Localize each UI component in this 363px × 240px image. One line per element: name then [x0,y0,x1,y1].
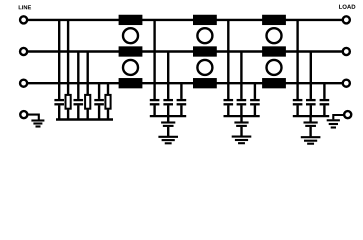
wire drop row1 to capacitor C12 [296,20,298,99]
wire drop row2 to capacitor C9 [240,52,242,99]
wire drop row2 to resistor R2 [86,52,88,95]
choke L1 winding row3 [119,78,143,88]
resistor R2 [85,95,90,120]
capacitor C2 [74,100,84,119]
wire drop row3 to capacitor C6 [180,83,182,99]
wire drop row1 to capacitor C1 [58,20,60,99]
capacitor C7 (star point to ground) [161,123,175,137]
label LINE [19,5,31,9]
choke L3 winding row2 [262,46,286,56]
wire drop row3 to capacitor C3 [98,83,100,99]
capacitor C8 [224,100,234,116]
choke L2 winding row1 [193,15,217,25]
resistor R3 [105,95,110,120]
ground symbol group C [301,137,321,144]
capacitor C15 (star point to ground) [304,123,318,138]
capacitor C5 [163,100,173,116]
ground symbol group A [158,137,178,144]
wire stem group B [240,116,242,121]
wire drop row3 to capacitor C14 [323,83,325,99]
capacitor C14 [320,100,330,116]
capacitor C13 [306,100,316,116]
wire drop row3 to capacitor C10 [254,83,256,99]
choke L3 winding row1 [262,15,286,25]
choke L2 core circle lower [197,60,212,75]
wire drop row1 to capacitor C8 [227,20,229,99]
choke L2 winding row2 [193,46,217,56]
choke L1 winding row1 [119,15,143,25]
ground symbol LINE side [31,121,44,127]
wire row 1 (phase A) [27,19,342,21]
capacitor C6 [177,100,187,116]
wire LINE ground stub [28,115,39,120]
terminal LINE phase A [20,16,27,23]
wire drop row2 to capacitor C13 [310,52,312,99]
wire stem group A [167,116,169,121]
terminal LINE ground [20,111,27,118]
terminal LOAD phase C [343,80,350,87]
wire drop row2 to capacitor C2 [77,52,79,99]
terminal LOAD ground [344,111,351,118]
capacitor C9 [237,100,247,116]
capacitor C1 [54,100,64,119]
ground symbol LOAD side [327,120,340,127]
terminal LINE phase C [20,80,27,87]
wire row 2 (phase B) [27,50,342,52]
wire star bus group A [150,115,186,117]
choke L2 winding row3 [193,78,217,88]
terminal LOAD phase B [343,48,350,55]
choke L3 core circle lower [267,60,282,75]
wire star bus group B [224,115,260,117]
terminal LINE phase B [20,48,27,55]
wire row 3 (phase C) [27,82,342,84]
choke L1 core circle upper [123,28,138,43]
terminal LOAD phase A [343,16,350,23]
wire drop row3 to resistor R3 [107,83,109,95]
choke L1 winding row2 [119,46,143,56]
choke L3 winding row3 [262,78,286,88]
choke L1 core circle lower [123,60,138,75]
capacitor C12 [293,100,303,116]
ground symbol group B [232,137,252,144]
capacitor C11 (star point to ground) [234,123,248,137]
capacitor C10 [250,100,260,116]
wire LOAD ground stub [333,115,344,119]
capacitor C3 [94,100,104,119]
wire stem group C [309,116,311,121]
wire drop row1 to resistor R1 [67,20,69,95]
capacitor C4 [150,100,160,116]
choke L2 core circle upper [197,28,212,43]
choke L3 core circle upper [267,28,282,43]
wire RC common bus [56,118,113,121]
label LOAD [339,5,355,9]
wire drop row1 to capacitor C4 [153,20,155,99]
wire star bus group C [293,115,329,117]
resistor R1 [66,95,71,120]
wire drop row2 to capacitor C5 [167,52,169,99]
